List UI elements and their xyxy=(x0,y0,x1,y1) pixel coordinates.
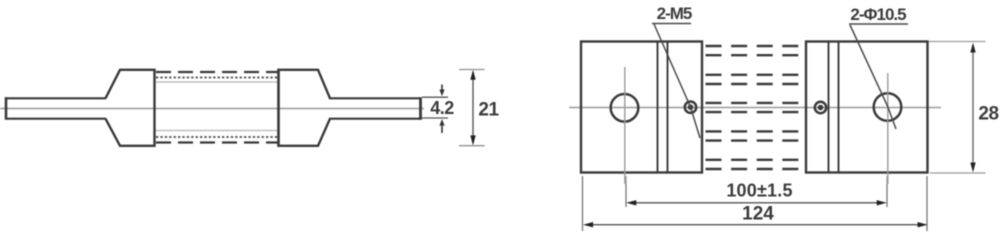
svg-text:4.2: 4.2 xyxy=(430,98,454,118)
side view faint edge (top) xyxy=(156,81,278,83)
label 2-M5 with underline and leader xyxy=(652,4,700,138)
svg-text:2-M5: 2-M5 xyxy=(657,4,692,23)
label 2-phi10.5 with underline and leader xyxy=(849,5,908,129)
dimension 100+-1.5 line with arrows xyxy=(626,200,887,205)
top view right block xyxy=(806,42,928,173)
resistance rod row 3 (hidden dashes) xyxy=(706,103,802,112)
dimension 100+-1.5 extension lines xyxy=(626,176,887,207)
side view hidden dashed edges (bottom) xyxy=(156,141,278,143)
side view faint edge (bottom) xyxy=(156,130,278,132)
dimension 4.2 extension lines xyxy=(422,97,448,118)
resistance rod row 4 (hidden dashes) xyxy=(706,131,802,140)
mounting hole right vertical centerline xyxy=(887,73,889,184)
side view dotted line (bottom) xyxy=(156,136,278,138)
dimension 21 extension ticks xyxy=(459,70,485,146)
dimension 4.2 arrow up xyxy=(439,119,444,133)
resistance rod row 1 (hidden dashes) xyxy=(706,46,802,55)
side view hidden dashed edges (top) xyxy=(156,71,278,73)
side view right terminal rod xyxy=(329,97,421,120)
mounting hole right (phi 10.5) xyxy=(874,93,902,121)
dimension text 4.2 xyxy=(430,98,454,118)
dimension text 21 xyxy=(478,99,499,120)
svg-text:21: 21 xyxy=(478,99,499,120)
side view dotted line (top) xyxy=(156,77,278,79)
mounting hole left (phi 10.5) xyxy=(611,94,639,122)
resistance rod row 2 (hidden dashes) xyxy=(706,75,802,84)
M5 tapped hole left xyxy=(685,102,696,113)
svg-text:2-Φ10.5: 2-Φ10.5 xyxy=(850,5,906,24)
side view centerline xyxy=(0,108,424,110)
dimension text 124 xyxy=(742,203,774,224)
side view left block xyxy=(106,70,155,146)
dimension 28 extension ticks xyxy=(929,42,986,174)
dimension 21 line with arrows xyxy=(470,70,475,146)
side view right block xyxy=(279,69,331,147)
dimension 4.2 arrow down xyxy=(439,85,444,97)
dimension text 100+-1.5 xyxy=(726,180,792,200)
dimension 28 line with arrows xyxy=(970,43,975,173)
svg-text:100±1.5: 100±1.5 xyxy=(726,180,792,200)
top view left block xyxy=(581,42,702,173)
top view left block step lines xyxy=(658,43,668,172)
svg-text:28: 28 xyxy=(978,104,998,125)
M5 tapped hole right xyxy=(815,102,826,113)
dimension 124 extension lines xyxy=(583,176,928,231)
dimension 124 line with arrows xyxy=(583,222,928,227)
resistance rod row 5 (hidden dashes) xyxy=(706,160,802,169)
side view left terminal rod xyxy=(5,97,106,119)
top view right block step lines xyxy=(829,43,839,172)
dimension text 28 xyxy=(978,104,998,125)
mounting hole left vertical centerline xyxy=(624,67,626,184)
svg-text:124: 124 xyxy=(742,203,774,224)
top view horizontal centerline xyxy=(569,107,941,109)
